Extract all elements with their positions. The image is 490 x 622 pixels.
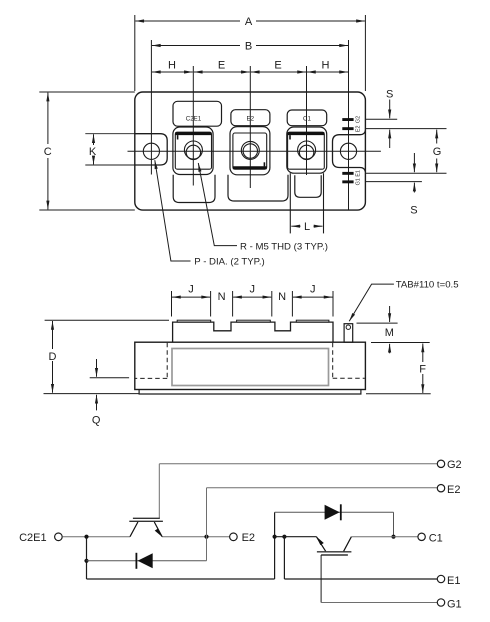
IGBT Q2 emitter arrow [155, 529, 163, 538]
wire diode1 branch [87, 560, 207, 562]
TAB#110 tab [344, 324, 353, 343]
terminal G2 circle [437, 460, 444, 467]
module body outline [135, 92, 366, 210]
extension line C1 center [306, 66, 308, 175]
terminal top plate 3 [296, 320, 329, 322]
dimension A line [135, 20, 240, 22]
extension line hole1 / B left [150, 40, 152, 175]
E2 lower wide pad [228, 175, 288, 201]
extension line B right / tab strip vertical [348, 40, 350, 210]
C1 screw inner circle [299, 145, 313, 159]
C1 lower tab outer left edge / L extension [289, 173, 291, 233]
svg-text:E1: E1 [355, 170, 361, 177]
C2E1 screw outer circle [184, 141, 202, 159]
terminal top plate 2 [237, 320, 271, 322]
svg-text:E2: E2 [242, 532, 255, 544]
rail G1 [321, 602, 437, 604]
IGBT Q1 gate vertical [320, 555, 322, 603]
D top reference line [45, 319, 169, 321]
IGBT Q2 gate bar [133, 517, 160, 519]
G arrow up [436, 130, 438, 144]
G arrow down [436, 159, 438, 173]
extension line C2E1 center [192, 66, 194, 186]
rail E2 top [207, 487, 438, 489]
svg-text:J: J [249, 284, 255, 296]
svg-text:E1: E1 [447, 575, 460, 587]
svg-text:C: C [44, 146, 52, 158]
wire IGBT2 emitter to E2 [162, 536, 229, 538]
hidden hole outline left [135, 343, 167, 379]
IGBT Q1 collector leg [344, 537, 352, 552]
svg-text:C2E1: C2E1 [19, 532, 47, 544]
svg-text:TAB#110 t=0.5: TAB#110 t=0.5 [396, 280, 459, 291]
S bottom arrow up [413, 183, 415, 193]
dimension B line [152, 45, 240, 47]
wire vertical left branch [86, 537, 88, 579]
svg-text:R - M5 THD (3 TYP.): R - M5 THD (3 TYP.) [240, 241, 328, 252]
svg-text:E2: E2 [355, 126, 361, 133]
wire bottom left [87, 578, 275, 580]
hidden hole outline right [333, 343, 365, 378]
IGBT Q2 collector leg [130, 522, 138, 537]
svg-text:A: A [245, 16, 253, 28]
IGBT Q1 emitter leg [316, 537, 325, 552]
C1 nut plate [288, 132, 325, 169]
node right section 2 [282, 535, 286, 539]
TAB leader [349, 284, 394, 321]
horizontal centerline [128, 150, 381, 152]
svg-text:E2: E2 [447, 484, 460, 496]
C1 screw outer circle [298, 141, 316, 159]
dimension A extension line left [134, 15, 136, 91]
C1 label box [287, 110, 327, 126]
dimension A extension line right [364, 15, 366, 91]
svg-text:K: K [89, 146, 97, 158]
svg-text:G2: G2 [447, 459, 462, 471]
terminal E1 circle [437, 575, 444, 582]
svg-text:B: B [245, 40, 252, 52]
svg-text:M: M [385, 327, 394, 339]
C1 lower tab outer right edge / L extension [323, 173, 325, 233]
svg-text:L: L [304, 221, 310, 233]
svg-text:H: H [168, 60, 176, 72]
svg-text:C1: C1 [429, 533, 443, 545]
svg-text:N: N [218, 291, 226, 303]
E2 label box [231, 110, 270, 126]
diode D2 [138, 553, 153, 568]
S top arrow down [389, 100, 391, 119]
TAB hole circle [346, 325, 350, 329]
inner gray panel [172, 349, 329, 386]
svg-text:G1: G1 [355, 178, 361, 185]
E2 nut plate [233, 133, 267, 169]
svg-text:C1: C1 [303, 116, 311, 123]
IGBT Q2 emitter leg [154, 522, 162, 537]
baseplate [139, 390, 361, 395]
right ear boss [333, 130, 366, 172]
E2 screw inner circle [243, 144, 257, 158]
C1 terminal boss [287, 127, 327, 173]
M/F reference line body top [371, 342, 430, 344]
C2E1 terminal boss [173, 127, 213, 175]
svg-text:H: H [322, 60, 330, 72]
svg-text:E: E [274, 60, 281, 72]
C2E1 screw inner circle [186, 145, 200, 159]
K reference line top [85, 133, 135, 135]
terminal C1 circle [418, 533, 425, 540]
IGBT Q2 body bar [129, 520, 163, 522]
C2E1 nut plate [175, 132, 211, 169]
S bottom arrow down [413, 153, 415, 172]
dimension C extension top [39, 91, 135, 93]
svg-text:E2: E2 [247, 116, 255, 123]
L dimension arrow left [291, 225, 300, 227]
rail G2 [159, 463, 437, 465]
E2 screw outer circle [241, 141, 259, 159]
IGBT Q1 emitter arrow [316, 536, 324, 545]
wire collector to C1 [351, 536, 418, 538]
svg-text:E: E [218, 60, 225, 72]
svg-text:G2: G2 [355, 116, 361, 123]
R leader [198, 163, 237, 246]
C1 lower tab inner [295, 175, 321, 197]
dimension H-E-E-H chain line [152, 71, 193, 73]
dimension C extension bottom [39, 209, 135, 211]
E2 tab reference line [366, 128, 447, 130]
node right section 1 [273, 535, 277, 539]
IGBT Q1 gate bar [321, 554, 348, 556]
gate tab E2 [342, 127, 353, 130]
terminal C2E1 circle [55, 533, 63, 541]
wire E2 node vertical [206, 488, 208, 561]
svg-text:N: N [278, 291, 286, 303]
K arrow up [93, 134, 95, 145]
node diode1 junction [84, 559, 88, 563]
L dimension arrow right [314, 225, 323, 227]
svg-text:J: J [188, 284, 194, 296]
terminal top plate 1 [177, 320, 211, 322]
svg-text:D: D [49, 351, 57, 363]
svg-text:P - DIA. (2 TYP.): P - DIA. (2 TYP.) [194, 257, 264, 268]
svg-text:G1: G1 [447, 598, 462, 610]
C2E1 lower pad [173, 175, 215, 203]
G1 tab reference line [366, 181, 422, 183]
node E2 junction [204, 535, 208, 539]
F dimension line [422, 344, 424, 363]
J/N extension verticals [171, 291, 173, 317]
node wire right section [275, 536, 317, 538]
K reference line bottom [85, 164, 135, 166]
terminal E2 circle [230, 533, 238, 541]
rail E1 [284, 578, 437, 580]
svg-text:Q: Q [92, 414, 101, 426]
svg-text:S: S [410, 205, 417, 217]
svg-text:F: F [419, 363, 426, 375]
Q reference line [90, 377, 129, 379]
J/N dimension line [172, 296, 210, 298]
dimension C line [47, 93, 49, 144]
wire E1 vertical [283, 537, 285, 579]
node C1 junction [391, 535, 395, 539]
M arrow up [389, 344, 391, 354]
IGBT Q2 gate vertical [158, 464, 160, 519]
gate tab G1 [342, 180, 353, 183]
gate tab G2 [342, 118, 353, 121]
svg-text:G: G [433, 146, 442, 158]
wire C2E1 to IGBT2 [62, 536, 130, 538]
svg-text:C2E1: C2E1 [186, 116, 202, 123]
Q arrow down [96, 359, 98, 377]
wire diode2 branch top [275, 511, 394, 513]
svg-text:S: S [386, 89, 393, 101]
diode D1 [325, 505, 340, 520]
IGBT Q1 body bar [317, 551, 352, 553]
wire mid vertical to node [274, 512, 276, 579]
M reference line top [357, 322, 398, 324]
terminal E2 top circle [437, 485, 444, 492]
side body rectangle [135, 342, 366, 389]
M arrow down [389, 306, 391, 322]
P leader [155, 160, 191, 261]
D dimension line [52, 321, 54, 349]
svg-text:J: J [310, 284, 316, 296]
E1 tab reference line [366, 172, 447, 174]
F bottom reference line [366, 393, 431, 395]
C2E1 label box [173, 101, 222, 126]
left ear boss [135, 134, 167, 165]
E2 terminal boss [230, 127, 270, 175]
K arrow down [93, 157, 95, 164]
wire diode2 down to C1 node [393, 512, 395, 536]
gate tab E1 [342, 172, 353, 175]
extension line E2 center [249, 66, 251, 188]
node C2E1 junction [84, 535, 88, 539]
mounting hole left [143, 143, 159, 159]
S top arrow up [389, 130, 391, 148]
terminal G1 circle [437, 599, 444, 606]
Q arrow up [96, 395, 98, 411]
G2 tab reference line [366, 118, 397, 120]
mounting hole right [340, 143, 356, 159]
terminal deck profile [173, 322, 333, 342]
D bottom reference line [44, 393, 140, 395]
